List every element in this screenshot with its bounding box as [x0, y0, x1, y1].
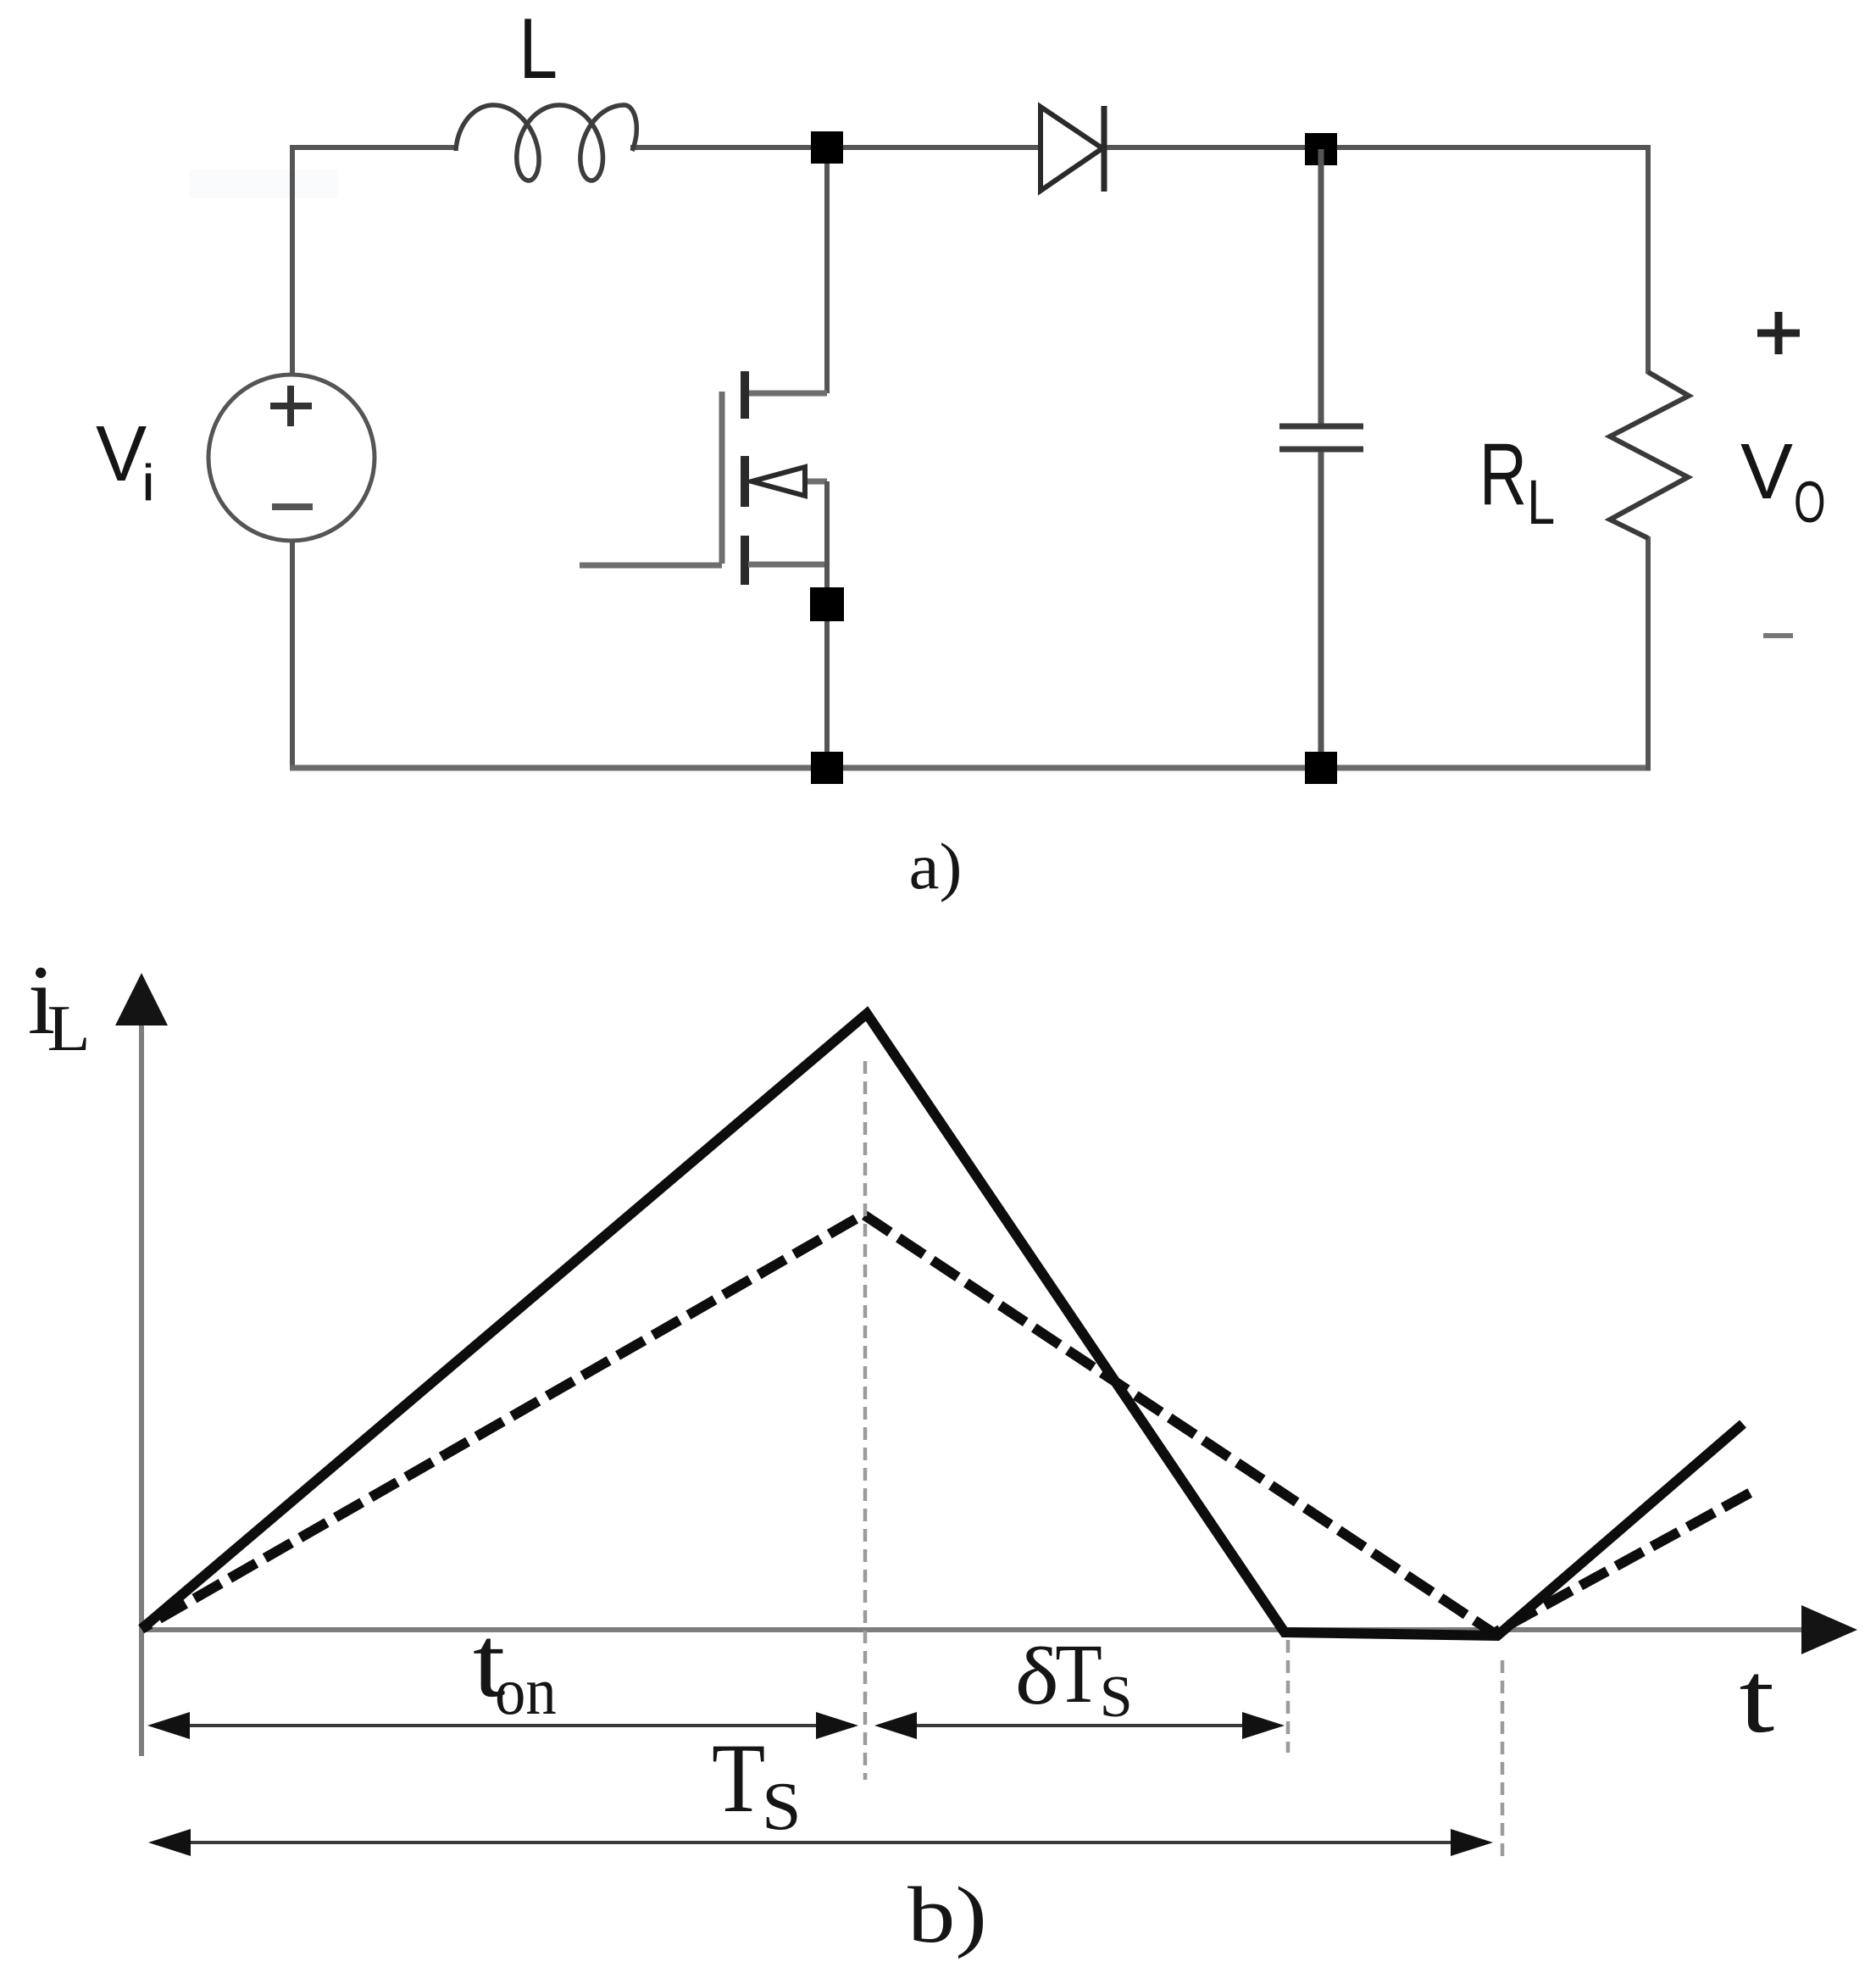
- svg-text:R: R: [1479, 425, 1527, 523]
- label Ts: [712, 1723, 765, 1832]
- gate bar: [719, 392, 725, 564]
- svg-text:δ: δ: [1015, 1632, 1059, 1722]
- resistor RL: [1610, 372, 1689, 538]
- svg-text:L: L: [47, 992, 91, 1064]
- svg-text:L: L: [1527, 468, 1555, 538]
- svg-text:S: S: [1100, 1665, 1133, 1730]
- svg-text:on: on: [495, 1654, 557, 1728]
- svg-text:t: t: [1740, 1642, 1775, 1754]
- source connection: [748, 562, 827, 568]
- svg-text:O: O: [1794, 469, 1826, 535]
- t_on arrow: [153, 1724, 854, 1727]
- guide dashed at peak: [863, 1061, 868, 1780]
- source wire down: [824, 481, 830, 770]
- node diode-capacitor: [1305, 133, 1337, 165]
- label L: [519, 2, 558, 97]
- x-axis: [142, 1627, 1809, 1632]
- plus output: [1757, 330, 1800, 337]
- svg-text:T: T: [1055, 1626, 1102, 1720]
- inductor L: [456, 105, 636, 181]
- guide dashed at Ts end: [1501, 1660, 1505, 1860]
- diode D: [1041, 107, 1102, 191]
- node inductor-switch-diode: [811, 131, 843, 164]
- guide dashed at delta end: [1286, 1640, 1290, 1753]
- label Vo: [1740, 427, 1793, 515]
- label t: [1740, 1642, 1775, 1754]
- voltage source Vi: [208, 375, 375, 541]
- wire left: [290, 145, 295, 770]
- label Vi: [96, 410, 147, 498]
- node switch-bottom: [811, 752, 843, 784]
- svg-text:i: i: [142, 455, 155, 512]
- channel bar bottom: [741, 536, 749, 585]
- svg-text:b): b): [907, 1871, 987, 1959]
- node capacitor-bottom: [1305, 752, 1337, 784]
- gate lead: [580, 563, 722, 569]
- label b): [907, 1871, 987, 1959]
- delta Ts arrow: [880, 1724, 1279, 1727]
- label a): [909, 831, 963, 903]
- svg-text:a): a): [909, 831, 963, 903]
- solid waveform iL: [142, 1014, 1743, 1636]
- label RL: [1479, 425, 1527, 523]
- wire top: [290, 145, 1648, 150]
- drain wire: [824, 149, 830, 393]
- dashed waveform iL: [142, 1214, 1752, 1633]
- node switch-source: [810, 587, 844, 621]
- svg-text:L: L: [519, 2, 558, 97]
- y-axis: [139, 1021, 144, 1756]
- svg-text:V: V: [1740, 427, 1793, 515]
- body connection and arrow: [796, 479, 827, 485]
- Ts arrow: [153, 1841, 1488, 1844]
- faint watermark patch: [189, 170, 338, 198]
- wire bottom: [290, 765, 1651, 771]
- svg-text:T: T: [712, 1723, 765, 1832]
- capacitor C: [1318, 149, 1324, 425]
- channel bar top: [741, 371, 749, 419]
- MOSFET Q1: [580, 149, 827, 770]
- label delta Ts: [1015, 1632, 1059, 1722]
- svg-text:V: V: [96, 410, 147, 498]
- wire right: [1646, 145, 1651, 374]
- svg-text:S: S: [762, 1769, 802, 1844]
- channel bar middle: [741, 456, 749, 507]
- label t_on: [473, 1605, 505, 1718]
- minus output: [1763, 633, 1793, 638]
